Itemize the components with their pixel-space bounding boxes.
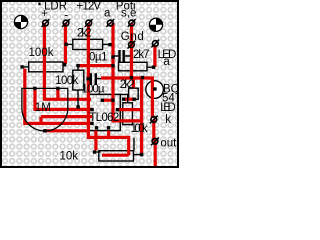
svg-text:2k2: 2k2 [120, 79, 135, 91]
svg-text:+: + [41, 8, 48, 20]
svg-text:100k: 100k [55, 75, 78, 87]
svg-text:s,e: s,e [121, 7, 136, 19]
svg-text:a: a [104, 7, 111, 19]
svg-text:2k7: 2k7 [133, 49, 150, 61]
svg-text:TL062: TL062 [89, 112, 119, 124]
svg-text:a: a [163, 56, 170, 68]
svg-text:LED: LED [160, 102, 176, 114]
svg-text:1M: 1M [35, 102, 51, 114]
svg-text:+12V: +12V [77, 1, 102, 13]
svg-text:Gnd: Gnd [121, 31, 144, 43]
svg-text:k: k [165, 114, 171, 126]
svg-text:-: - [64, 9, 68, 21]
svg-text:out: out [160, 137, 177, 149]
svg-text:100k: 100k [29, 47, 54, 59]
svg-text:100µ: 100µ [82, 83, 105, 95]
svg-text:10k: 10k [60, 150, 79, 162]
svg-text:100k: 100k [131, 123, 148, 135]
svg-text:2k2: 2k2 [77, 27, 92, 39]
svg-text:0µ1: 0µ1 [89, 51, 108, 63]
